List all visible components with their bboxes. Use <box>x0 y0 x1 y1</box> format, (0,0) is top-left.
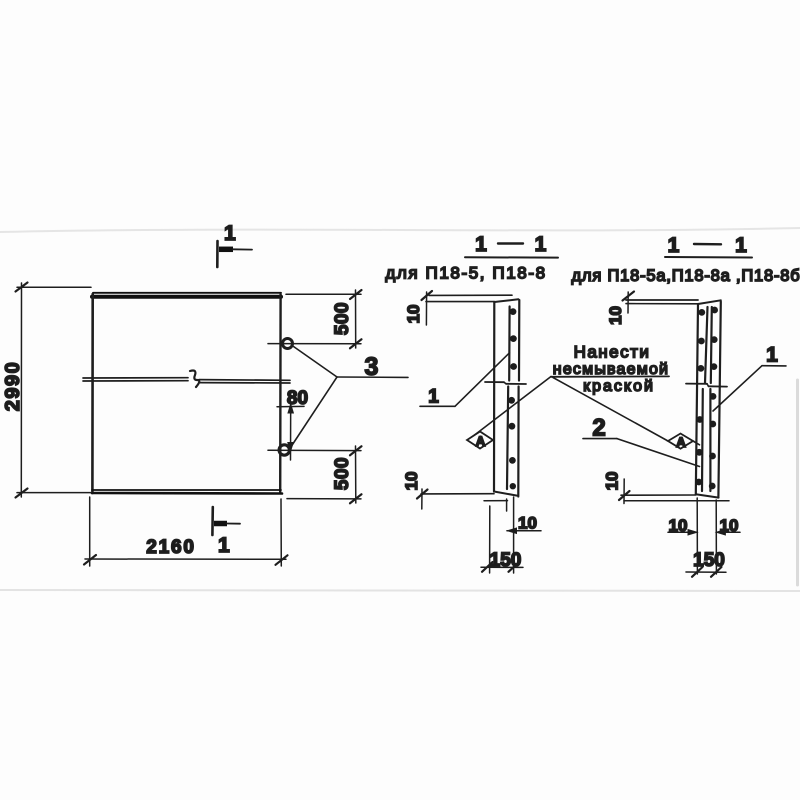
dimension 500 top <box>268 290 362 348</box>
svg-text:для П18-5, П18-8: для П18-5, П18-8 <box>385 264 546 283</box>
dimension 150 middle <box>481 562 523 572</box>
mark diamond A right stub <box>693 441 700 445</box>
dimension 2160 <box>84 497 288 566</box>
svg-text:10: 10 <box>669 516 688 535</box>
right strip rebar dots left column <box>695 309 705 485</box>
svg-text:А: А <box>476 434 486 449</box>
right strip outline <box>696 300 721 497</box>
panel mid joint double line <box>83 378 290 383</box>
svg-text:2: 2 <box>592 415 605 442</box>
svg-text:10: 10 <box>404 305 423 324</box>
svg-text:150: 150 <box>490 550 522 571</box>
dimension 150 right <box>686 567 726 577</box>
svg-text:для П18-5а,П18-8а ,П18-8б: для П18-5а,П18-8а ,П18-8б <box>572 267 800 285</box>
dimension 10 bottom-left right section <box>619 479 729 504</box>
middle strip outline <box>494 299 519 496</box>
section mark bottom <box>212 507 240 535</box>
lifting hook top <box>283 339 293 349</box>
svg-text:1: 1 <box>535 233 547 256</box>
dimension 10 bottom-left middle <box>417 489 508 509</box>
svg-text:1: 1 <box>224 222 236 245</box>
svg-text:500: 500 <box>332 457 353 490</box>
middle strip rebar dots <box>508 308 517 489</box>
svg-text:10: 10 <box>606 306 625 325</box>
leader label 1 middle <box>420 353 510 407</box>
svg-text:500: 500 <box>332 302 353 335</box>
leader label 1 right <box>713 366 786 411</box>
dimension 80 <box>277 404 304 460</box>
svg-text:1: 1 <box>668 234 680 257</box>
svg-text:1: 1 <box>475 233 487 256</box>
joint break squiggle <box>190 371 199 388</box>
note underline shelf <box>551 375 669 377</box>
dimension 10 top right <box>623 292 699 314</box>
svg-text:2160: 2160 <box>146 537 195 558</box>
right below-strip extension lines <box>697 498 716 574</box>
section mark top <box>217 241 252 267</box>
svg-text:1: 1 <box>218 534 230 557</box>
svg-text:несмываемой: несмываемой <box>553 361 669 378</box>
leader to note right mark <box>553 378 668 442</box>
svg-text:10: 10 <box>720 516 739 535</box>
svg-text:150: 150 <box>693 550 725 571</box>
dimension 2990 <box>16 283 92 498</box>
svg-text:1: 1 <box>766 344 778 367</box>
svg-text:А: А <box>676 435 686 450</box>
leader to note from middle mark <box>470 377 551 439</box>
svg-text:1: 1 <box>428 387 439 408</box>
dimension 10 bottom pair right: right <box>716 530 740 535</box>
middle strip break mark <box>485 382 526 384</box>
svg-text:1: 1 <box>735 234 747 257</box>
right strip break mark <box>686 384 727 387</box>
paper crease faint line <box>0 228 800 232</box>
dimension 10 bottom pair right: left <box>668 530 697 535</box>
section title right 1-1 <box>665 234 752 258</box>
svg-text:10: 10 <box>603 472 622 491</box>
dimension 500 bottom <box>268 446 362 503</box>
svg-text:краской: краской <box>583 378 655 395</box>
mark diamond A middle <box>467 432 493 449</box>
scan edge right <box>796 380 799 585</box>
middle below-strip extension lines <box>490 497 514 573</box>
leader label 2 <box>583 439 700 467</box>
svg-text:2990: 2990 <box>2 361 24 412</box>
svg-text:10: 10 <box>518 514 537 533</box>
dimension 10 top middle <box>422 291 513 325</box>
svg-text:10: 10 <box>402 472 421 491</box>
svg-text:3: 3 <box>365 353 379 381</box>
svg-text:80: 80 <box>287 388 308 409</box>
paper faint line bottom <box>0 590 800 591</box>
mark diamond A right <box>668 434 693 449</box>
section title middle 1-1 <box>465 233 558 258</box>
right strip rebar dots right column <box>709 307 718 490</box>
lifting hook bottom <box>279 445 289 455</box>
svg-text:Нанести: Нанести <box>574 343 651 362</box>
panel outline <box>92 293 282 494</box>
leader label 3 <box>292 347 409 447</box>
dimension 10 bottom-right middle <box>507 528 541 533</box>
